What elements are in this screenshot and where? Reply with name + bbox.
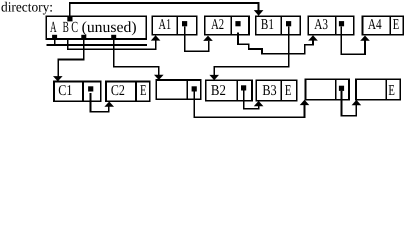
wire F1 to F2	[194, 92, 304, 118]
svg-text:B1: B1	[261, 17, 274, 33]
wire slot C drop to C1	[58, 39, 84, 78]
node A3 box	[308, 16, 354, 35]
wire A2 to A3 (staircase)	[238, 33, 313, 54]
svg-text:B: B	[63, 19, 69, 36]
svg-text:directory:: directory:	[1, 0, 53, 15]
node A1 divider	[176, 16, 178, 35]
pointer square B1	[286, 21, 291, 26]
svg-text:B2: B2	[211, 83, 226, 99]
node A4 divider	[389, 16, 391, 35]
node B3 box	[256, 80, 296, 101]
free node F1 box	[156, 80, 201, 99]
wire A3 to A4	[341, 26, 365, 54]
arrowhead into F2 bottom	[300, 100, 310, 105]
arrowhead into F3 bottom	[352, 100, 362, 105]
node B2 box	[206, 80, 252, 101]
pointer square F2	[339, 86, 344, 91]
arrowhead into B3 bottom	[254, 101, 264, 106]
wire B1 to B2	[214, 26, 288, 75]
arrowhead into F1 top	[154, 75, 164, 80]
directory box	[46, 16, 146, 39]
wire F2 to F3	[342, 91, 357, 116]
node B3 divider	[280, 80, 282, 101]
node A4 box	[363, 16, 404, 35]
arrowhead into C2 bottom	[104, 102, 114, 107]
arrowhead into C1 top	[53, 76, 63, 81]
free node F2 box	[306, 79, 350, 99]
node B1 box	[256, 16, 301, 35]
free node F3 divider	[385, 79, 387, 99]
svg-text:E: E	[140, 83, 147, 99]
node C2 box	[106, 82, 150, 102]
pointer square A1	[182, 21, 187, 26]
wire C1 to C2	[91, 93, 109, 112]
wire A1 to A2	[185, 26, 209, 51]
node A2 divider	[230, 16, 232, 35]
svg-text:C1: C1	[58, 83, 72, 99]
wire directory slot B to B1 (top route)	[70, 3, 259, 17]
wire B2 to B3	[244, 90, 259, 109]
arrowhead into B1 top	[254, 10, 264, 16]
svg-text:A1: A1	[159, 17, 172, 33]
free node F1 divider	[186, 80, 188, 99]
svg-text:E: E	[285, 83, 292, 99]
svg-text:A2: A2	[211, 17, 224, 33]
pointer square B2	[241, 85, 246, 90]
wire slot A riser to A1	[68, 39, 156, 49]
svg-text:C2: C2	[111, 83, 125, 99]
pointer square directory slot A	[52, 35, 57, 40]
node B2 divider	[236, 80, 238, 101]
pointer square directory slot C	[81, 35, 86, 40]
pointer square C1	[88, 86, 93, 91]
node B1 divider	[280, 16, 282, 35]
node C2 divider	[135, 82, 137, 102]
svg-text:C: C	[71, 19, 78, 36]
free node F2 divider	[335, 79, 337, 99]
svg-text:E: E	[388, 83, 395, 99]
svg-text:A3: A3	[314, 17, 328, 33]
directory box lower bus line	[46, 44, 147, 46]
node A2 box	[205, 16, 249, 35]
svg-text:E: E	[393, 17, 400, 33]
arrowhead into A1 bottom	[151, 35, 161, 40]
arrowhead into B2 top	[209, 75, 219, 80]
node A3 divider	[335, 16, 337, 35]
pointer square A2	[235, 21, 240, 26]
arrowhead into A2 bottom	[203, 36, 213, 41]
wire unused slot drop to F1	[114, 39, 159, 76]
svg-text:A: A	[50, 19, 57, 36]
svg-text:(unused): (unused)	[82, 19, 137, 36]
pointer square directory unused slot	[111, 35, 116, 40]
pointer square A3	[339, 21, 344, 26]
pointer square directory slot B	[67, 16, 72, 21]
arrowhead into A4 bottom	[360, 36, 370, 41]
free node F3 box	[356, 79, 400, 99]
node C1 box	[54, 82, 101, 102]
wire directory slot A stem to bus	[54, 39, 56, 46]
pointer square F1	[192, 86, 197, 91]
svg-text:A4: A4	[368, 17, 382, 33]
arrowhead into A3 bottom	[308, 35, 318, 40]
node A1 box	[152, 16, 196, 35]
node C1 divider	[82, 82, 84, 102]
svg-text:B3: B3	[262, 83, 276, 99]
